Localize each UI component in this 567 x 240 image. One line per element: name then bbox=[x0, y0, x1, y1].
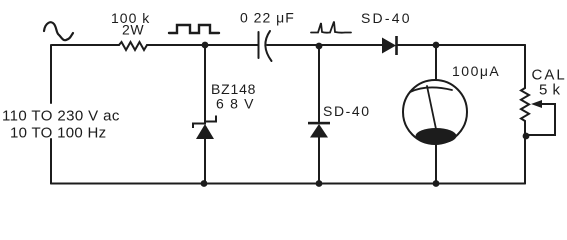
diode branch wire upper bbox=[318, 46, 320, 123]
left vertical wire lower segment bbox=[50, 139, 52, 184]
meter coil blob bbox=[416, 128, 457, 144]
capacitor C1 0.22uF left plate bbox=[258, 32, 260, 58]
svg-text:SD-40: SD-40 bbox=[361, 10, 412, 26]
capacitor C1 right plate (curved) bbox=[265, 31, 271, 61]
junction node dot (diode branch top) bbox=[316, 43, 323, 50]
svg-text:0 22 μF: 0 22 μF bbox=[240, 10, 295, 26]
meter branch wire lower bbox=[435, 144, 437, 184]
potentiometer wiper loop wire bbox=[527, 104, 555, 135]
zener diode D1 triangle bbox=[196, 124, 214, 139]
junction node dot (zener top) bbox=[202, 42, 209, 49]
svg-text:2W: 2W bbox=[122, 22, 144, 38]
zener diode D1 BZ148 cathode bar bbox=[192, 116, 217, 129]
svg-text:6 8 V: 6 8 V bbox=[216, 96, 255, 112]
junction node dot (pot wiper) bbox=[523, 133, 530, 140]
right vertical wire to potentiometer bbox=[524, 45, 526, 88]
diode D3 SD-40 triangle (horizontal) bbox=[382, 38, 396, 54]
square wave symbol bbox=[169, 25, 219, 33]
junction node dot (diode bottom) bbox=[316, 180, 323, 187]
wire resistor to capacitor bbox=[147, 44, 258, 46]
spike waveform symbol bbox=[311, 22, 351, 33]
wire capacitor to diode bbox=[267, 44, 382, 46]
svg-text:5 k: 5 k bbox=[539, 82, 561, 99]
diode D3 cathode bar bbox=[395, 36, 398, 55]
wire potentiometer bottom to bottom wire bbox=[524, 121, 526, 184]
wire diode to top-right corner bbox=[397, 44, 525, 46]
junction node dot (meter bottom) bbox=[433, 180, 440, 187]
svg-text:110 TO 230 V ac: 110 TO 230 V ac bbox=[2, 108, 120, 125]
svg-text:10 TO 100 Hz: 10 TO 100 Hz bbox=[10, 125, 106, 142]
meter branch wire upper bbox=[435, 45, 437, 80]
junction node dot (zener bottom) bbox=[201, 180, 208, 187]
diode D2 SD-40 cathode bar bbox=[308, 122, 330, 125]
diode D2 triangle bbox=[310, 124, 328, 138]
zener branch wire lower bbox=[204, 139, 206, 184]
wire top left horizontal bbox=[52, 44, 119, 46]
bottom wire bbox=[51, 183, 525, 185]
meter M1 circle bbox=[403, 80, 467, 144]
diode branch wire lower bbox=[318, 137, 320, 184]
meter needle bbox=[427, 86, 436, 129]
junction node dot (meter top) bbox=[433, 42, 440, 49]
zener branch wire upper bbox=[204, 45, 206, 122]
AC source sine symbol bbox=[44, 22, 73, 40]
svg-text:100μA: 100μA bbox=[452, 63, 500, 79]
svg-text:SD-40: SD-40 bbox=[323, 103, 371, 119]
potentiometer wiper arrowhead bbox=[531, 100, 542, 108]
resistor R1 100k 2W bbox=[119, 42, 147, 50]
left vertical wire upper segment bbox=[50, 45, 52, 103]
meter scale arc bbox=[410, 87, 452, 92]
potentiometer CAL 5k zigzag bbox=[521, 88, 529, 121]
